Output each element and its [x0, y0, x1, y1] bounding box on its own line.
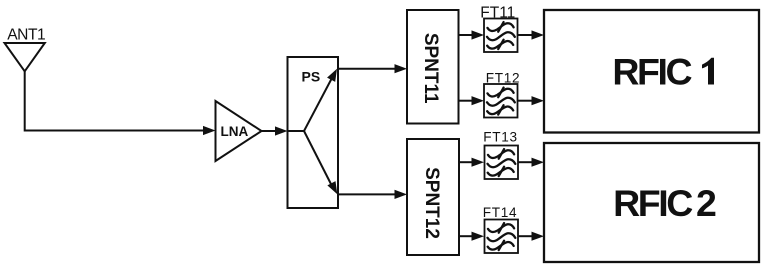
wire PS to SPNT12: [338, 193, 396, 195]
wire SPNT12 to FT14: [459, 235, 473, 237]
filter FT14: [485, 220, 519, 254]
svg-text:LNA: LNA: [221, 124, 249, 139]
wire PS fan lower: [304, 131, 333, 188]
wire PS fan upper: [304, 76, 333, 131]
wire FT11 to RFIC1: [518, 34, 534, 36]
svg-text:RFIC2: RFIC2: [613, 182, 716, 224]
svg-text:FT13: FT13: [483, 130, 518, 145]
svg-text:SPNT12: SPNT12: [421, 167, 442, 239]
svg-text:PS: PS: [302, 68, 321, 84]
wire PS to SPNT11: [338, 68, 396, 70]
switch SPNT12: [407, 139, 459, 255]
filter FT12: [484, 84, 518, 118]
wire FT12 to RFIC1: [518, 100, 534, 102]
wire FT13 to RFIC2: [518, 161, 533, 163]
svg-text:SPNT11: SPNT11: [420, 33, 441, 104]
switch SPNT11: [407, 10, 459, 124]
svg-text:ANT1: ANT1: [7, 27, 45, 44]
amplifier LNA: [216, 101, 262, 161]
wire PS input stub: [288, 130, 305, 132]
filter FT11: [484, 19, 518, 53]
filter FT13: [485, 146, 519, 180]
RFIC2: [544, 143, 759, 262]
svg-text:FT14: FT14: [483, 205, 518, 220]
wire SPNT11 to FT11: [459, 34, 474, 36]
wire FT14 to RFIC2: [518, 235, 533, 237]
wire LNA to PS: [262, 130, 278, 132]
wire SPNT11 to FT12: [459, 100, 474, 102]
antenna ANT1 symbol: [5, 43, 45, 71]
svg-text:RFIC: RFIC: [612, 51, 692, 93]
wire antenna to LNA: [25, 71, 206, 131]
power splitter PS: [288, 57, 339, 208]
wire SPNT12 to FT13: [459, 161, 473, 163]
RFIC1: [544, 10, 759, 133]
